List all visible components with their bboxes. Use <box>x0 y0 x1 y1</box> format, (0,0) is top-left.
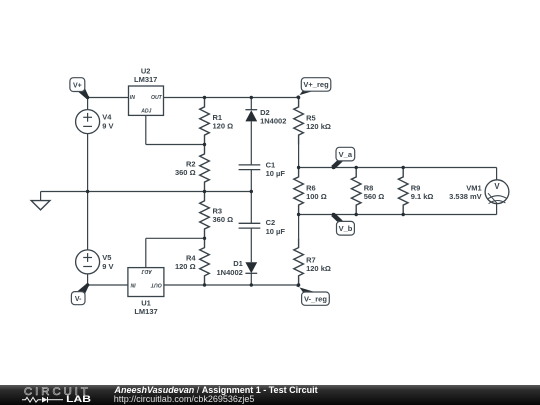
node V+ flag <box>78 88 89 98</box>
wire V_a rail <box>299 167 497 169</box>
footer bar <box>0 385 540 405</box>
wire V+ rail from U2 OUT to R5/V+_reg node <box>164 97 299 99</box>
svg-text:OUT: OUT <box>151 95 163 101</box>
svg-text:10 µF: 10 µF <box>266 169 286 178</box>
capacitor C2 <box>250 192 252 224</box>
resistor R2 <box>200 145 210 192</box>
svg-text:120 kΩ: 120 kΩ <box>306 264 331 273</box>
svg-text:IN: IN <box>130 282 135 288</box>
svg-text:V_b: V_b <box>339 224 353 233</box>
wire VM1 top lead <box>496 168 498 181</box>
svg-text:560 Ω: 560 Ω <box>364 192 385 201</box>
svg-text:LM137: LM137 <box>134 307 157 316</box>
capacitor C1 <box>239 164 261 166</box>
wire U2 ADJ vertical <box>145 115 147 144</box>
svg-text:1N4002: 1N4002 <box>217 268 243 277</box>
node V+_reg flag <box>297 90 315 98</box>
svg-text:http://circuitlab.com/cbk26953: http://circuitlab.com/cbk269536zje5 <box>114 394 255 404</box>
svg-text:LM317: LM317 <box>134 75 157 84</box>
resistor R5 <box>294 98 304 145</box>
svg-text:V4: V4 <box>102 113 112 122</box>
wire V5 bottom lead <box>87 274 89 285</box>
wire U1 ADJ horizontal to R3-R4 node <box>146 237 205 239</box>
svg-text:LAB: LAB <box>66 394 91 404</box>
svg-text:1N4002: 1N4002 <box>260 116 286 125</box>
svg-text:100 Ω: 100 Ω <box>306 192 327 201</box>
svg-text:9 V: 9 V <box>102 262 113 271</box>
resistor R1 <box>200 98 210 145</box>
wire V- rail to U1 IN <box>88 284 128 286</box>
resistor R9 <box>398 168 408 215</box>
svg-text:V+: V+ <box>73 82 82 89</box>
svg-text:360 Ω: 360 Ω <box>175 168 196 177</box>
svg-text:V5: V5 <box>102 253 111 262</box>
node V_b flag <box>331 213 343 222</box>
wire U2 ADJ horizontal to R1-R2 node <box>146 144 205 146</box>
node V- flag <box>78 284 89 294</box>
svg-text:ADJ: ADJ <box>142 268 153 274</box>
svg-text:120 Ω: 120 Ω <box>213 122 234 131</box>
svg-text:120 kΩ: 120 kΩ <box>306 122 331 131</box>
voltmeter VM1 <box>485 180 509 204</box>
op-amp U2 box (LM317 regulator) <box>129 86 164 115</box>
svg-text:3.538 mV: 3.538 mV <box>449 192 482 201</box>
ground <box>40 192 42 201</box>
wire V4 bottom lead to ground rail <box>87 134 89 192</box>
wire U1 OUT rail to V-_reg node <box>164 284 299 286</box>
wire U1 ADJ vertical <box>145 238 147 267</box>
svg-text:360 Ω: 360 Ω <box>213 215 234 224</box>
op-amp U1 box (LM137 regulator, flipped) <box>128 268 164 297</box>
svg-text:V+_reg: V+_reg <box>303 80 329 89</box>
resistor R7 <box>298 215 300 239</box>
svg-text:9.1 kΩ: 9.1 kΩ <box>411 192 434 201</box>
resistor R6 <box>294 168 304 215</box>
svg-text:V_a: V_a <box>339 150 353 159</box>
svg-text:120 Ω: 120 Ω <box>175 262 196 271</box>
svg-text:9 V: 9 V <box>102 122 113 131</box>
svg-text:V: V <box>494 182 500 191</box>
wire ground rail <box>41 191 252 193</box>
svg-text:10 µF: 10 µF <box>266 227 286 236</box>
diode D2 <box>250 98 252 111</box>
wire V4 top lead <box>87 98 89 110</box>
wire VM1 bottom lead <box>496 204 498 215</box>
wire V_b rail <box>299 214 497 216</box>
diode D1 <box>245 262 257 273</box>
node V-_reg flag <box>297 284 315 292</box>
resistor R4 <box>200 238 210 285</box>
resistor R3 <box>200 192 210 239</box>
junction dots <box>86 96 89 99</box>
voltage source V4 <box>76 110 100 134</box>
node V_a flag <box>331 160 343 169</box>
svg-text:V-_reg: V-_reg <box>304 294 327 303</box>
svg-text:IN: IN <box>130 95 135 101</box>
wire V5 top lead <box>87 192 89 251</box>
voltage source V5 <box>76 250 100 274</box>
wire V+ rail left segment <box>88 97 129 99</box>
svg-text:V-: V- <box>75 296 82 303</box>
svg-text:OUT: OUT <box>150 282 162 288</box>
svg-text:ADJ: ADJ <box>140 109 151 115</box>
logo waveform: resistor zigzag and diode <box>22 397 42 402</box>
resistor R8 <box>351 168 361 215</box>
